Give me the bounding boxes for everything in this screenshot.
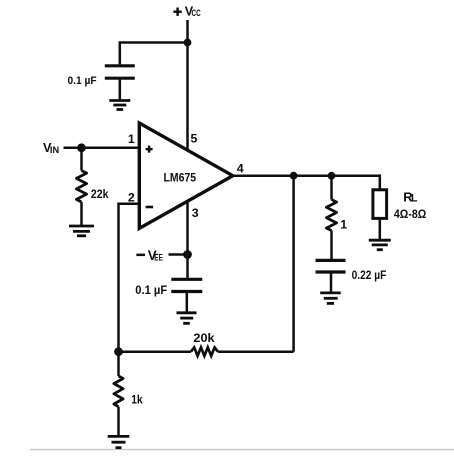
power +VCC [173,4,201,18]
ground under RL [369,240,391,250]
wire pin 2 stub [119,203,140,206]
wire VEE node to C2 [186,255,189,278]
svg-text:3: 3 [192,206,199,220]
svg-text:LM675: LM675 [164,171,197,185]
resistor R2 1k [114,376,123,407]
svg-text:L: L [411,192,418,204]
junction VIN node [77,143,86,152]
svg-text:4: 4 [237,161,244,175]
wire pin 5 from VCC node [186,43,189,152]
wire VIN to op-amp pin 1 [64,147,140,150]
wire feedback left vertical [117,203,120,352]
resistor R1 22k [76,171,86,203]
svg-text:4Ω-8Ω: 4Ω-8Ω [394,209,426,221]
svg-text:22k: 22k [91,187,109,201]
junction output feedback node [290,172,298,180]
svg-text:0.1 µF: 0.1 µF [68,75,97,87]
junction output Zobel node [328,172,336,180]
junction VCC node [184,39,192,47]
wire pin 3 down to VEE node [186,201,189,255]
input VIN [43,141,59,155]
ground under C3 [320,293,341,304]
capacitor C2 0.1uF [171,279,202,291]
wire C2 to ground [186,293,189,313]
wire VCC down to node [186,20,189,43]
wire VIN node to R1 [80,148,83,171]
resistor R4 1 ohm [326,200,336,231]
wire feedback right vertical [292,176,295,352]
svg-text:EE: EE [154,252,163,262]
resistor RL load box [373,190,387,219]
wire VCC node to C1 [120,43,188,65]
svg-text:1: 1 [340,218,347,232]
svg-text:5: 5 [191,132,198,146]
svg-text:CC: CC [192,8,202,18]
svg-text:0.22 µF: 0.22 µF [352,270,387,282]
wire bottom feedback left segment [119,350,191,353]
junction feedback bottom node [114,347,123,356]
wire output to RL [379,174,382,190]
wire feedback node to R2 [117,352,120,376]
capacitor C3 0.22uF [316,260,346,272]
wire R1 to ground [80,202,83,226]
svg-text:20k: 20k [193,331,214,345]
svg-text:0.1 µF: 0.1 µF [135,285,167,297]
power -VEE [136,248,162,263]
wire Zobel node to R4 [330,176,333,200]
resistor R3 20k [191,347,218,356]
wire output from pin 4 [233,174,380,177]
wire C3 to ground [330,273,333,293]
ground under R1 [69,226,94,236]
junction VEE node [183,250,192,259]
wire R4 to C3 [330,231,333,260]
wire C1 to ground [119,80,122,101]
svg-text:2: 2 [128,190,135,204]
ground under C1 [109,101,130,110]
svg-text:1k: 1k [131,392,143,406]
wire R2 to ground [117,407,120,437]
op-amp U1 LM675 [139,123,233,228]
capacitor C1 0.1uF [105,66,135,78]
wire bottom feedback right segment [218,350,294,353]
ground under C2 [177,313,197,324]
svg-text:1: 1 [128,132,135,146]
wire VEE stub [169,253,188,256]
svg-text:IN: IN [50,144,59,155]
label RL [403,189,418,204]
ground under R2 [108,436,130,447]
wire RL to ground [379,218,382,240]
